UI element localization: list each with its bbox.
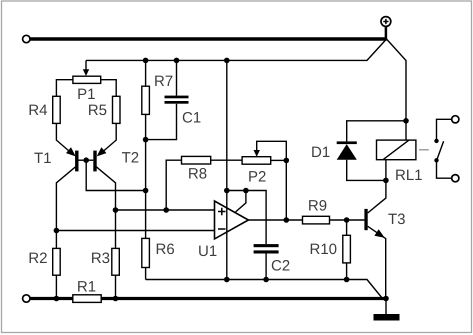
potentiometer P2 bbox=[242, 157, 271, 165]
resistor R3 bbox=[115, 210, 117, 248]
transistor T1 bbox=[75, 151, 78, 172]
capacitor C1 bbox=[176, 60, 178, 95]
wire R4 to T1 emitter bbox=[56, 123, 72, 153]
node T2c-R3-plus bbox=[113, 207, 119, 213]
wire thick top supply rail bbox=[30, 37, 387, 40]
label R1 bbox=[78, 281, 95, 291]
ground bbox=[385, 299, 387, 315]
resistor R5 bbox=[113, 96, 121, 123]
resistor R1 bbox=[73, 295, 101, 303]
node R9-R10-T3base bbox=[344, 217, 350, 223]
wire T2 collector down bbox=[96, 167, 115, 210]
diode D1 bbox=[347, 121, 406, 142]
label T1 bbox=[34, 153, 50, 163]
node output-P2 bbox=[284, 217, 290, 223]
label C1 bbox=[183, 112, 201, 123]
transistor T2 bbox=[93, 151, 96, 172]
node base junction bbox=[83, 157, 89, 163]
wire lower thin ground line bbox=[146, 280, 383, 299]
label C2 bbox=[272, 260, 290, 271]
wire P1 right to R5 bbox=[101, 80, 117, 97]
capacitor C2 bbox=[254, 244, 279, 247]
node R7-C1 bbox=[143, 137, 149, 143]
label R7 bbox=[155, 76, 172, 86]
node C2 bottom bbox=[263, 277, 269, 283]
node T3 collector-relay bbox=[383, 178, 389, 184]
node supply line left bbox=[224, 188, 230, 194]
label P1 bbox=[78, 89, 94, 99]
resistor R10 bbox=[346, 220, 348, 235]
terminal input top-left bbox=[23, 35, 30, 42]
node R3 bottom bbox=[113, 296, 119, 302]
terminal input bottom-left bbox=[23, 295, 30, 302]
label R2 bbox=[30, 253, 47, 263]
relay RL1 bbox=[377, 140, 416, 160]
wire P2 node down to output bbox=[285, 160, 287, 220]
node rail-opamp-supply bbox=[224, 58, 230, 64]
wire plus input line bbox=[116, 209, 215, 211]
label R5 bbox=[89, 105, 106, 115]
node P2 right bbox=[284, 158, 290, 164]
wire P1 left to R4 bbox=[56, 80, 73, 97]
op-amp U1 bbox=[215, 201, 249, 239]
wire thick bottom rail bbox=[30, 297, 388, 300]
relay-switch link bbox=[419, 149, 429, 151]
label R9 bbox=[309, 200, 326, 211]
node R2 bottom bbox=[54, 296, 60, 302]
label D1 bbox=[312, 147, 329, 157]
resistor R4 bbox=[53, 96, 61, 123]
node supply stub bbox=[243, 188, 249, 194]
wire R5 to T2 emitter bbox=[100, 123, 116, 153]
node rail-C1 bbox=[174, 58, 180, 64]
terminal + supply bbox=[381, 17, 391, 41]
wire T1 collector down bbox=[56, 167, 75, 231]
resistor R8 bbox=[166, 160, 181, 210]
wire op-amp output bbox=[248, 219, 302, 221]
label U1 bbox=[199, 246, 216, 256]
label P2 bbox=[249, 171, 265, 181]
wire T1-T2 bases bbox=[79, 159, 94, 161]
node T1c-R2-minus bbox=[54, 228, 60, 234]
wire node down through to R6 bbox=[145, 140, 147, 239]
node rail-R7 bbox=[143, 58, 149, 64]
node supply bottom bbox=[224, 277, 230, 283]
node R10 bottom bbox=[344, 277, 350, 283]
potentiometer P1 bbox=[73, 60, 101, 83]
wire supply line to C2 bbox=[227, 191, 266, 245]
label R10 bbox=[311, 244, 337, 255]
wire minus input line bbox=[56, 230, 214, 232]
node plus-R8 bbox=[163, 207, 169, 213]
resistor R7 bbox=[145, 60, 147, 86]
label T3 bbox=[388, 214, 405, 225]
label R6 bbox=[157, 244, 174, 255]
wire opamp supply vertical bbox=[226, 60, 228, 279]
node bases-R6R7C1 bbox=[143, 188, 149, 194]
resistor R9 bbox=[303, 216, 330, 224]
label R8 bbox=[189, 168, 206, 179]
transistor T3 bbox=[364, 209, 367, 230]
switch contact bbox=[452, 116, 459, 123]
node ground junction bbox=[383, 296, 389, 302]
wire upper rail y60 with diagonal to supply bbox=[86, 39, 387, 60]
label T2 bbox=[122, 152, 138, 162]
node D1-relay top bbox=[403, 118, 409, 124]
wire bases down to node line bbox=[86, 160, 145, 190]
resistor R2 bbox=[55, 231, 57, 249]
label R4 bbox=[30, 105, 48, 115]
label RL1 bbox=[396, 170, 422, 180]
wire supply stub to op-amp bbox=[236, 191, 246, 212]
label R3 bbox=[92, 253, 109, 264]
resistor R6 bbox=[142, 238, 150, 267]
wire diagonal right down to relay branch bbox=[387, 39, 407, 140]
